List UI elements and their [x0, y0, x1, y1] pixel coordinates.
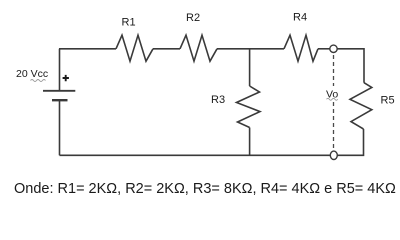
dashed Vo measurement line lower — [333, 102, 335, 150]
terminal node top (open circle) — [330, 45, 337, 52]
battery plus sign — [63, 75, 69, 81]
svg-text:R2: R2 — [186, 12, 200, 24]
wire R4 to top terminal — [318, 48, 330, 50]
resistor R5 — [350, 83, 372, 129]
battery V1 negative plate — [52, 99, 68, 101]
spellcheck squiggle under Vcc — [31, 80, 46, 82]
resistor R1 — [116, 35, 153, 61]
resistor R3 — [237, 86, 261, 128]
node R2-R3 junction branch wire — [249, 49, 251, 86]
wire R2 to R4 (through node) — [217, 48, 284, 50]
wire R1 to R2 — [153, 48, 180, 50]
wire left vertical top (to battery) — [59, 49, 61, 91]
resistor R2 — [180, 35, 217, 61]
wire R5 bottom leg — [338, 129, 364, 155]
dashed Vo measurement line upper — [333, 55, 335, 86]
battery V1 positive plate — [43, 90, 75, 92]
wire left vertical bottom (battery to bottom wire) — [59, 100, 61, 155]
terminal node bottom (open circle) — [330, 151, 337, 159]
wire R3 to bottom — [249, 128, 251, 156]
svg-text:R3: R3 — [211, 94, 225, 106]
svg-text:R5: R5 — [381, 95, 395, 107]
svg-text:20 Vcc: 20 Vcc — [16, 68, 48, 80]
svg-text:R4: R4 — [293, 12, 307, 24]
svg-text:Onde: R1= 2KΩ, R2= 2KΩ, R3= 8K: Onde: R1= 2KΩ, R2= 2KΩ, R3= 8KΩ, R4= 4KΩ… — [14, 181, 396, 197]
wire top terminal to right corner — [337, 49, 364, 83]
spellcheck squiggle under Vo — [327, 98, 338, 100]
wire top left (battery to R1) — [59, 48, 116, 50]
resistor R4 — [284, 35, 318, 61]
wire bottom — [60, 154, 331, 156]
svg-text:R1: R1 — [122, 17, 136, 29]
